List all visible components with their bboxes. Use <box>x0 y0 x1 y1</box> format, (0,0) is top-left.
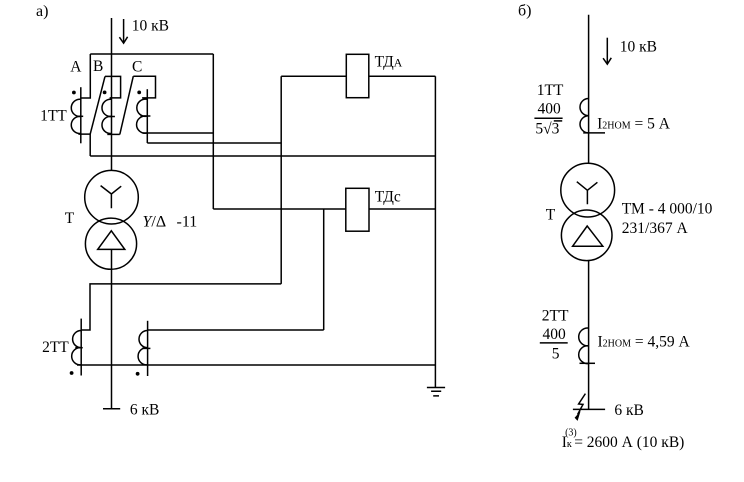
wire: main line below transformer (right) <box>588 260 590 410</box>
arrow 10 kV (right) <box>606 38 608 64</box>
CT 2TT phase A: polarity dot <box>70 371 74 375</box>
wire: box right vertical to TDC wire <box>212 54 214 209</box>
CT 2TT phase A: secondary coil <box>72 331 82 365</box>
svg-text:Т: Т <box>65 210 75 227</box>
transformer T: delta winding circle <box>85 218 136 269</box>
svg-text:Т: Т <box>546 207 556 224</box>
short-circuit lightning arrow <box>578 394 586 415</box>
transformer T (right): star circle <box>561 163 615 217</box>
CT 2TT (right): secondary coil <box>579 328 589 364</box>
wire: C coil bottom lead to box right vertical <box>143 132 214 134</box>
CT 1TT phase A: mid tick <box>77 115 83 117</box>
svg-text:б): б) <box>518 3 531 20</box>
CT 1TT phase B: bottom lead <box>107 133 120 135</box>
svg-text:С: С <box>132 59 142 76</box>
relay TDA box <box>346 54 369 97</box>
wire: 10 kV incoming line (left diagram, phase B main) <box>111 18 113 171</box>
wire: left vertical elbow to 2TT-A <box>81 284 281 330</box>
svg-text:6 кВ: 6 кВ <box>130 401 160 418</box>
svg-text:2ТТ: 2ТТ <box>542 308 569 325</box>
svg-text:2ТТ: 2ТТ <box>42 339 69 356</box>
transformer T (right): delta circle <box>561 210 612 261</box>
transformer T: delta triangle symbol <box>98 231 125 250</box>
CT 2TT phase A: mid tick <box>75 347 82 349</box>
svg-text:1ТТ: 1ТТ <box>40 107 67 124</box>
wire: TDC to 2TT-C vertical <box>323 209 325 330</box>
wire: TDA right lead <box>369 75 436 77</box>
transformer T (right): delta triangle <box>573 226 603 246</box>
svg-text:400: 400 <box>543 326 567 343</box>
CT 1TT phase A: polarity dot <box>72 91 76 95</box>
arrow 10 kV (left) <box>123 19 125 43</box>
svg-text:1ТТ: 1ТТ <box>537 82 564 99</box>
svg-text:а): а) <box>36 3 48 20</box>
svg-text:5√3: 5√3 <box>535 121 559 138</box>
CT 1TT phase B: polarity dot <box>103 91 107 95</box>
wire: 10 kV incoming line (right diagram) <box>588 15 590 164</box>
CT 2TT phase C: secondary coil <box>138 331 148 365</box>
CT 1TT phase B: secondary coil <box>102 99 112 133</box>
CT 2TT phase A: primary bar <box>80 319 82 376</box>
svg-text:5: 5 <box>552 346 560 363</box>
CT 1TT phase A: secondary coil <box>71 99 81 133</box>
relay TDC box <box>346 188 369 231</box>
wire: TDC left lead <box>213 208 345 210</box>
svg-text:ТМ - 4 000/10: ТМ - 4 000/10 <box>622 201 713 218</box>
CT 1TT phase C: top lead bracket <box>133 76 155 98</box>
wire: C primary bottom to relay left vertical <box>147 142 281 144</box>
svg-text:А: А <box>70 59 82 76</box>
wire: link to 2TT-C coil <box>148 329 324 331</box>
wire: relay circuit left vertical <box>280 76 282 284</box>
transformer T: star (Y) symbol <box>101 186 122 209</box>
svg-text:-11: -11 <box>177 213 198 230</box>
CT 1TT phase A: primary bar <box>80 87 82 143</box>
ground symbol <box>427 388 445 396</box>
CT 2TT phase C: primary bar <box>147 321 149 376</box>
svg-text:Y/Δ: Y/Δ <box>143 213 167 230</box>
svg-text:В: В <box>93 58 103 75</box>
wire: diagonal B-bottom to C-top <box>120 76 134 134</box>
CT 1TT phase C: polarity dot <box>137 91 141 95</box>
svg-text:ТДс: ТДс <box>375 188 401 205</box>
CT 1TT (right): secondary coil <box>580 98 589 132</box>
svg-text:231/367 А: 231/367 А <box>622 220 689 237</box>
wire: main line transformer to 6 kV <box>111 249 113 409</box>
CT 2TT phase C: polarity dot <box>136 372 140 376</box>
transformer T: star winding circle <box>85 170 139 224</box>
CT 1TT phase C: mid tick <box>141 115 151 117</box>
terminal bar 6 kV (right) <box>573 408 605 410</box>
svg-text:10 кВ: 10 кВ <box>620 39 657 56</box>
transformer T (right): star (Y) symbol <box>577 182 598 205</box>
svg-text:400: 400 <box>538 101 562 118</box>
CT 1TT phase C: secondary coil <box>137 99 147 133</box>
wire: TDA left lead <box>281 75 346 77</box>
wire: diagonal A-bottom to B-top <box>90 76 105 134</box>
svg-text:6 кВ: 6 кВ <box>614 402 644 419</box>
CT 1TT phase B: mid tick <box>109 116 115 118</box>
CT 1TT phase A: top lead step <box>81 54 91 98</box>
wire: TDC right lead <box>369 208 435 210</box>
wire: relay circuit right vertical to ground <box>434 76 436 387</box>
terminal bar 6 kV (left) <box>103 408 120 410</box>
wire: middle horizontal (A secondary common) <box>90 155 435 157</box>
svg-text:10 кВ: 10 кВ <box>132 18 169 35</box>
CT 2TT phase C: mid tick <box>142 347 150 349</box>
CT 2TT (right): bottom lead tick <box>580 362 596 364</box>
wire: secondary common return to ground <box>77 364 435 366</box>
wire: bus top (box top edge) <box>90 53 213 55</box>
svg-text:ТДА: ТДА <box>375 53 403 70</box>
svg-text:= 2600 А (10 кВ): = 2600 А (10 кВ) <box>574 434 684 451</box>
CT 1TT phase C: primary bar <box>146 89 148 143</box>
CT 1TT phase B: top lead bracket <box>105 76 121 98</box>
CT 1TT (right): bottom lead tick <box>583 132 605 134</box>
CT 1TT phase A: bottom lead <box>78 134 90 156</box>
